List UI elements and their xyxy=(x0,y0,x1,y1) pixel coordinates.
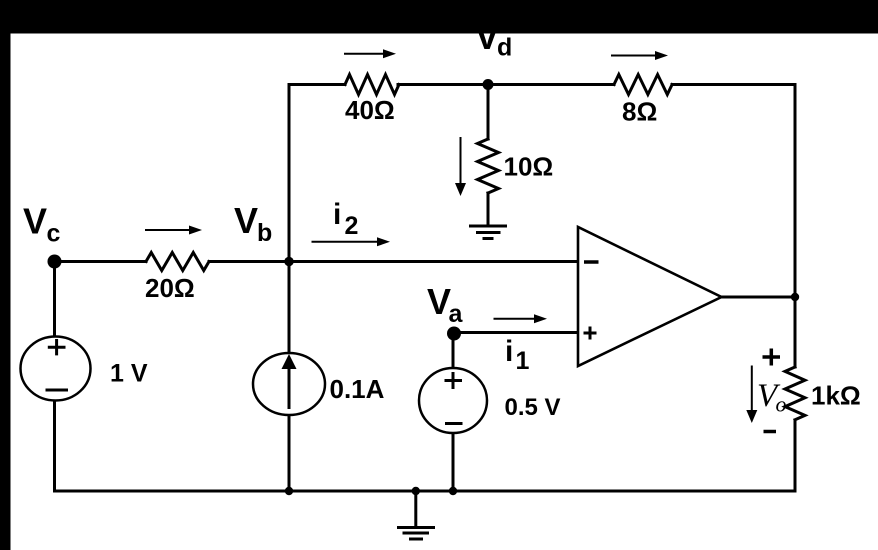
current source I1 0.1A xyxy=(253,353,325,415)
node Vb label xyxy=(234,200,272,247)
wire 10ohm to ground xyxy=(487,193,490,225)
svg-text:V: V xyxy=(427,281,451,322)
svg-text:40Ω: 40Ω xyxy=(345,95,395,125)
svg-text:1kΩ: 1kΩ xyxy=(811,381,861,411)
V1 minus sign xyxy=(46,389,69,392)
wire Vb below current source xyxy=(288,415,291,491)
wire 20ohm to op-amp minus input xyxy=(209,260,578,263)
label i2 xyxy=(333,198,358,240)
I1 arrow up xyxy=(288,369,291,409)
op-amp minus symbol xyxy=(584,260,599,264)
wire left vertical lower xyxy=(53,401,56,492)
resistor 1kohm xyxy=(785,367,805,420)
wire right vertical upper xyxy=(794,85,797,368)
label Vo xyxy=(757,378,787,417)
svg-text:20Ω: 20Ω xyxy=(145,273,195,303)
arrow i1 xyxy=(494,314,548,323)
svg-text:o: o xyxy=(776,392,787,417)
label i1 xyxy=(505,335,530,375)
svg-text:i: i xyxy=(505,335,513,368)
wire left vertical upper xyxy=(53,262,56,337)
node Vd dot xyxy=(483,79,494,90)
node Vd label xyxy=(475,16,512,62)
node Va dot xyxy=(447,327,461,341)
wire Va to op-amp plus input xyxy=(453,331,578,334)
svg-text:2: 2 xyxy=(345,212,359,240)
op-amp plus symbol xyxy=(584,327,597,340)
arrow down beside 10ohm xyxy=(455,137,466,196)
svg-text:8Ω: 8Ω xyxy=(622,97,657,127)
wire bottom xyxy=(55,490,796,493)
node op-amp output dot xyxy=(791,293,799,301)
arrow i2 xyxy=(312,237,391,246)
node ground dot xyxy=(412,487,420,495)
wire 0.5V source to bottom xyxy=(452,433,455,491)
svg-text:a: a xyxy=(449,300,464,328)
voltage source V2 0.5V xyxy=(419,368,487,433)
wire Vd vertical xyxy=(487,85,490,140)
node 0.5V bottom dot xyxy=(449,487,457,495)
svg-text:i: i xyxy=(333,198,341,231)
svg-text:V: V xyxy=(234,200,258,241)
wire top-left segment (Vb corner to 40ohm) xyxy=(289,83,345,86)
wire 8ohm to right corner xyxy=(672,83,795,86)
resistor 10ohm xyxy=(478,139,499,193)
ground G2 (bottom center) xyxy=(397,528,435,540)
arrow above 20ohm xyxy=(145,226,202,235)
label Vo minus xyxy=(764,430,777,434)
svg-text:10Ω: 10Ω xyxy=(504,152,554,182)
top black bar xyxy=(0,0,878,34)
svg-text:b: b xyxy=(257,219,272,247)
svg-text:0.1A: 0.1A xyxy=(330,374,385,404)
arrow above 8ohm xyxy=(611,51,668,60)
node Vc dot xyxy=(48,255,62,269)
arrow above 40ohm xyxy=(344,49,396,58)
label Vo plus xyxy=(763,349,781,366)
svg-text:1: 1 xyxy=(516,347,530,375)
V2 minus sign xyxy=(445,422,463,425)
left black strip xyxy=(0,0,11,550)
svg-text:1 V: 1 V xyxy=(110,360,148,388)
arrow down Vo xyxy=(746,366,757,424)
wire Va vertical xyxy=(452,333,455,369)
wire Vc to 20ohm xyxy=(55,260,147,263)
node Vb bottom dot xyxy=(285,487,293,495)
wire Vb vertical xyxy=(288,85,291,354)
V1 plus sign xyxy=(48,339,66,355)
wire ground stub bottom xyxy=(414,491,417,527)
resistor 40ohm xyxy=(345,75,399,95)
V2 plus sign xyxy=(445,372,463,389)
wire op-amp output xyxy=(722,296,796,299)
node Vb dot xyxy=(284,257,293,266)
node Vc label xyxy=(23,201,61,248)
wire right vertical lower xyxy=(794,420,797,491)
voltage source V1 1V xyxy=(21,337,91,401)
ground G1 (below 10ohm) xyxy=(469,226,507,239)
resistor 20ohm xyxy=(146,253,209,271)
svg-text:V: V xyxy=(23,201,47,242)
op-amp U1 xyxy=(578,227,722,366)
svg-text:d: d xyxy=(497,34,512,62)
node Va label xyxy=(427,281,464,328)
svg-text:c: c xyxy=(47,220,61,248)
svg-text:0.5 V: 0.5 V xyxy=(505,394,561,421)
wire 40ohm to node Vd xyxy=(398,83,614,86)
resistor 8ohm xyxy=(614,75,672,95)
